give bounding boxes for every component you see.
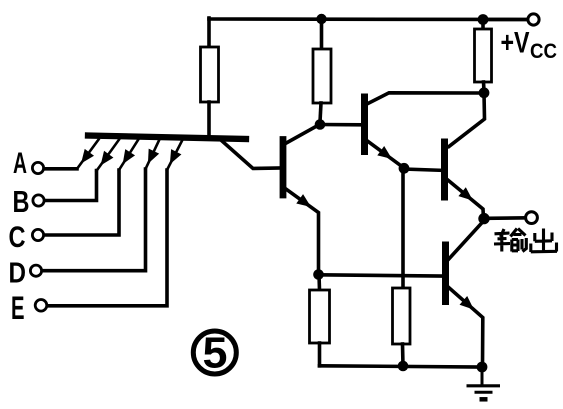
transistor T4 base bar [441,142,448,197]
node dot below R5 [479,87,490,98]
input terminal C circle [32,229,43,240]
svg-text:A: A [13,147,27,180]
wire R3 bottom lead [318,343,322,366]
resistor R5 [475,29,492,82]
transistor T3 base bar [361,97,368,152]
transistor T1 emitter 4 (input D) [146,140,160,169]
svg-text:CC: CC [530,40,557,63]
transistor T2 collector lead [285,125,320,145]
wire R3 top lead [317,275,321,290]
input terminal B circle [33,195,44,206]
arrow on T1 emitter 4 [143,149,159,167]
resistor R3 [310,290,330,343]
transistor T1 emitter 3 (input C) [119,140,138,170]
label output (输出) drawn strokes [494,229,557,253]
figure number circled 5 [193,331,236,374]
arrow on T1 emitter 2 [96,151,114,169]
svg-text:C: C [9,221,26,254]
wire T4 collector from R5 node [449,93,485,147]
transistor T1 multi-emitter base bar [88,136,246,140]
resistor R4 [393,288,411,344]
arrow on T2 emitter [296,194,314,212]
wire input E lead [47,170,167,306]
wire R4 top lead from T3 emitter node [401,168,405,288]
svg-text:B: B [13,184,30,219]
出 char [531,229,557,253]
wire R2 bottom lead [320,103,321,122]
transistor T3 collector lead [366,93,480,105]
+Vcc terminal circle [528,14,539,25]
node dot output [478,213,489,224]
transistor T4 emitter lead [446,179,484,219]
wire T4 base lead [404,169,441,170]
wire input B lead [44,171,97,201]
transistor T1 emitter 5 (input E) [167,141,182,170]
wire bottom ground rail [320,366,483,367]
输 char: 车 radical [494,229,510,252]
wire input C lead [44,170,119,235]
transistor T5 collector lead [447,221,484,261]
svg-text:+V: +V [501,27,530,60]
wire R4 bottom lead [401,344,405,366]
input terminal A circle [32,162,43,173]
wire T5 base lead from T2 emitter node [319,275,443,276]
wire top supply rail [209,17,528,21]
transistor T5 emitter lead [447,286,483,367]
node dot on rail above R5 [478,14,489,25]
transistor T5 base bar [442,245,449,302]
svg-text:E: E [11,290,25,326]
input terminal D circle [30,265,41,276]
wire output lead [488,216,526,220]
node dot on rail above R2 [316,14,326,24]
transistor T1 emitter 1 (input A) [77,140,99,169]
node dot T3 emitter / T4 base [399,163,410,174]
wire R1 top lead [207,18,211,47]
transistor T2 emitter lead [285,188,319,274]
node dot R4 bottom rail [398,361,409,372]
wire R5 bottom lead [482,82,486,91]
svg-text:D: D [9,257,27,289]
transistor T1 emitter 2 (input B) [97,140,119,171]
resistor R1 [201,47,219,102]
wire input D lead [42,169,146,271]
wire R2 top lead [320,19,324,49]
wire R5 top lead [481,20,485,30]
transistor T3 emitter lead [366,140,404,168]
arrow on T1 emitter 3 [118,149,135,167]
arrow on T1 emitter 1 [76,149,94,167]
input terminal E circle [35,300,47,312]
node dot T2 collector / T3 base [315,119,326,130]
wire T3 base lead [320,123,362,127]
arrow on T4 emitter [458,187,476,205]
transistor T2 base bar [280,140,287,196]
node dot T2 emitter / R3 [313,269,324,280]
arrow on T3 emitter [377,146,395,164]
wire R1 bottom lead [207,102,211,136]
arrow on T5 emitter [460,296,478,314]
transistor T1 collector lead to T2 base [222,141,281,169]
输 char: 俞 right part [511,229,527,252]
wire input A lead [44,167,78,171]
wire +Vcc lead [483,18,528,22]
output terminal circle [526,212,538,224]
resistor R2 [313,49,331,103]
svg-text:5: 5 [203,329,228,378]
node dot ground rail [477,362,488,373]
arrow on T1 emitter 5 [165,149,182,167]
ground symbol [467,367,501,399]
